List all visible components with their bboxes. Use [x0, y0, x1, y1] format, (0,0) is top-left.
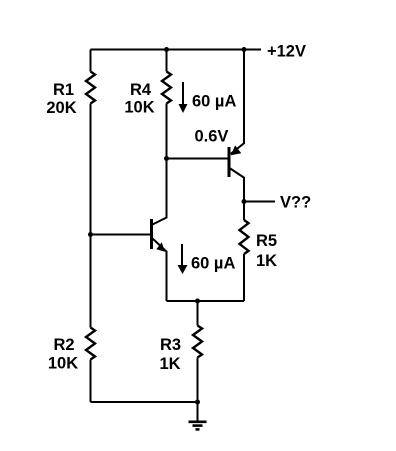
- svg-text:R1: R1: [53, 81, 74, 99]
- svg-text:+12V: +12V: [267, 43, 306, 61]
- svg-text:R4: R4: [130, 81, 152, 99]
- svg-text:1K: 1K: [159, 355, 180, 373]
- svg-text:R5: R5: [256, 232, 277, 250]
- svg-text:R2: R2: [53, 336, 74, 354]
- svg-text:10K: 10K: [124, 99, 154, 117]
- svg-text:60 µA: 60 µA: [191, 255, 235, 273]
- svg-text:0.6V: 0.6V: [195, 128, 229, 146]
- svg-text:R3: R3: [160, 336, 181, 354]
- svg-text:1K: 1K: [256, 252, 277, 270]
- svg-text:20K: 20K: [46, 99, 76, 117]
- svg-text:V??: V??: [280, 194, 311, 212]
- svg-text:10K: 10K: [48, 355, 78, 373]
- svg-text:60 µA: 60 µA: [192, 93, 236, 111]
